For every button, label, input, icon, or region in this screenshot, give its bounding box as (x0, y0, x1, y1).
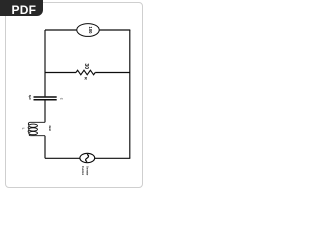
PDF badge (0, 0, 43, 16)
capacitor C plate bottom (34, 99, 57, 101)
wire right rail (129, 30, 131, 158)
resistor R wire left lead (45, 72, 76, 74)
svg-text:Generator: Generator (85, 166, 89, 175)
resistor R zigzag (76, 70, 95, 75)
source V1 ellipse (80, 153, 95, 162)
capacitor C plate top (34, 96, 57, 98)
svg-text:100: 100 (88, 27, 93, 35)
wire left rail lower (44, 136, 46, 159)
svg-text:3mH: 3mH (48, 125, 52, 130)
page border (5, 2, 143, 188)
svg-text:3µF: 3µF (28, 95, 32, 100)
wire bottom-right segment (95, 157, 131, 159)
inductor L coil (28, 122, 45, 135)
resistor R wire right lead (95, 72, 130, 74)
wire left rail mid (44, 101, 46, 123)
svg-text:30: 30 (83, 63, 89, 69)
meter U1 ellipse (77, 24, 99, 37)
wire bottom-left segment (45, 157, 80, 159)
wire top-left segment (45, 29, 77, 31)
svg-text:C: C (60, 98, 63, 100)
svg-text:R: R (84, 77, 88, 80)
source V1 sine symbol (86, 154, 89, 161)
wire left rail upper (44, 30, 46, 96)
wire top-right segment (99, 29, 130, 31)
svg-text:Function: Function (81, 166, 85, 175)
svg-text:L: L (21, 128, 25, 130)
